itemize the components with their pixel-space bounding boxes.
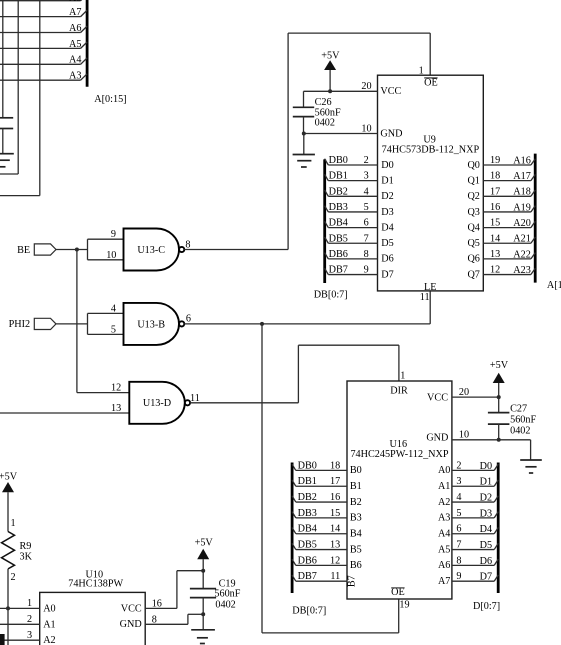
svg-text:20: 20 (361, 81, 371, 92)
svg-text:A2: A2 (438, 497, 450, 508)
svg-text:9: 9 (456, 571, 461, 582)
svg-text:DB6: DB6 (329, 249, 348, 260)
svg-text:A5: A5 (69, 39, 81, 50)
svg-text:D2: D2 (480, 492, 492, 503)
svg-text:12: 12 (111, 383, 121, 394)
svg-text:4: 4 (111, 303, 116, 314)
svg-text:A6: A6 (69, 23, 81, 34)
svg-text:560nF: 560nF (510, 415, 536, 426)
svg-text:17: 17 (330, 476, 340, 487)
svg-text:4: 4 (456, 492, 461, 503)
svg-text:A22: A22 (513, 249, 531, 260)
svg-text:18: 18 (490, 171, 500, 182)
svg-text:A0: A0 (438, 465, 450, 476)
svg-text:18: 18 (330, 460, 340, 471)
svg-text:A[16:23]: A[16:23] (547, 280, 561, 291)
svg-text:10: 10 (106, 250, 116, 261)
svg-text:6: 6 (456, 524, 461, 535)
svg-text:Q4: Q4 (467, 222, 479, 233)
svg-text:GND: GND (120, 619, 142, 630)
svg-text:D7: D7 (480, 572, 492, 583)
svg-text:14: 14 (330, 524, 340, 535)
svg-text:DIR: DIR (390, 385, 408, 396)
svg-text:10: 10 (459, 430, 469, 441)
svg-text:B3: B3 (350, 513, 362, 524)
svg-text:4: 4 (364, 186, 369, 197)
svg-text:19: 19 (399, 600, 409, 611)
svg-text:DB2: DB2 (329, 186, 348, 197)
svg-text:A0: A0 (43, 603, 55, 614)
svg-text:OE: OE (424, 77, 438, 88)
svg-text:0402: 0402 (510, 425, 530, 436)
svg-text:A3: A3 (69, 71, 81, 82)
svg-text:17: 17 (490, 186, 500, 197)
svg-text:D[0:7]: D[0:7] (473, 601, 500, 612)
svg-text:A21: A21 (513, 234, 531, 245)
svg-text:A23: A23 (513, 265, 531, 276)
svg-text:DB6: DB6 (298, 555, 317, 566)
svg-text:A4: A4 (69, 55, 81, 66)
svg-text:B6: B6 (350, 560, 362, 571)
svg-text:DB4: DB4 (329, 218, 348, 229)
svg-text:D4: D4 (480, 524, 492, 535)
svg-text:13: 13 (111, 403, 121, 414)
svg-text:A17: A17 (513, 171, 531, 182)
svg-text:2: 2 (364, 155, 369, 166)
svg-text:R9: R9 (20, 541, 32, 552)
svg-text:9: 9 (111, 229, 116, 240)
svg-text:19: 19 (490, 155, 500, 166)
svg-text:+5V: +5V (0, 472, 18, 483)
svg-text:12: 12 (490, 265, 500, 276)
svg-text:2: 2 (27, 614, 32, 625)
svg-text:DB1: DB1 (329, 171, 348, 182)
svg-text:U13-C: U13-C (137, 245, 165, 256)
svg-text:A1: A1 (438, 481, 450, 492)
svg-text:D3: D3 (480, 508, 492, 519)
svg-text:Q5: Q5 (467, 238, 479, 249)
svg-text:U13-D: U13-D (143, 398, 171, 409)
svg-text:OE: OE (391, 587, 405, 598)
svg-text:DB5: DB5 (298, 540, 317, 551)
svg-text:+5V: +5V (195, 537, 214, 548)
svg-text:A7: A7 (438, 576, 450, 587)
svg-text:D6: D6 (480, 556, 492, 567)
svg-text:74HC573DB-112_NXP: 74HC573DB-112_NXP (382, 145, 480, 156)
svg-text:A7: A7 (69, 7, 81, 18)
svg-text:C27: C27 (510, 404, 527, 415)
svg-text:16: 16 (152, 598, 162, 609)
svg-text:D2: D2 (381, 191, 393, 202)
svg-text:5: 5 (456, 508, 461, 519)
svg-text:3: 3 (27, 630, 32, 641)
svg-text:U13-B: U13-B (137, 319, 165, 330)
svg-text:DB2: DB2 (298, 492, 317, 503)
svg-text:12: 12 (330, 555, 340, 566)
svg-text:DB[0:7]: DB[0:7] (292, 606, 326, 617)
svg-text:A1: A1 (43, 619, 55, 630)
svg-text:8: 8 (152, 614, 157, 625)
svg-text:Q1: Q1 (467, 175, 479, 186)
svg-text:A18: A18 (513, 187, 531, 198)
svg-text:A5: A5 (438, 544, 450, 555)
svg-text:Q3: Q3 (467, 207, 479, 218)
svg-text:3: 3 (456, 476, 461, 487)
svg-text:2: 2 (11, 572, 16, 583)
svg-text:DB7: DB7 (329, 265, 348, 276)
svg-text:15: 15 (330, 508, 340, 519)
svg-text:D1: D1 (381, 175, 393, 186)
svg-text:D5: D5 (381, 238, 393, 249)
svg-text:15: 15 (490, 218, 500, 229)
svg-text:9: 9 (364, 265, 369, 276)
svg-text:3: 3 (364, 171, 369, 182)
svg-text:A20: A20 (513, 218, 531, 229)
svg-text:8: 8 (364, 249, 369, 260)
svg-text:7: 7 (456, 540, 461, 551)
svg-text:DB1: DB1 (298, 476, 317, 487)
svg-text:A19: A19 (513, 202, 531, 213)
svg-text:D3: D3 (381, 207, 393, 218)
svg-text:VCC: VCC (380, 86, 401, 97)
svg-text:0402: 0402 (215, 600, 235, 611)
svg-text:560nF: 560nF (214, 589, 240, 600)
svg-text:Q6: Q6 (467, 254, 479, 265)
svg-text:10: 10 (361, 123, 371, 134)
svg-text:20: 20 (459, 387, 469, 398)
svg-text:+5V: +5V (321, 51, 340, 62)
svg-text:0402: 0402 (315, 118, 335, 129)
svg-text:B7: B7 (347, 575, 358, 587)
svg-text:D0: D0 (480, 461, 492, 472)
svg-text:GND: GND (380, 128, 402, 139)
svg-text:A2: A2 (43, 635, 55, 645)
svg-text:GND: GND (426, 433, 448, 444)
svg-text:A6: A6 (438, 560, 450, 571)
svg-text:D6: D6 (381, 254, 393, 265)
svg-text:7: 7 (364, 233, 369, 244)
svg-text:B1: B1 (350, 481, 362, 492)
svg-text:Q0: Q0 (467, 160, 479, 171)
svg-text:13: 13 (490, 249, 500, 260)
svg-text:6: 6 (364, 218, 369, 229)
svg-text:B4: B4 (350, 529, 362, 540)
svg-text:5: 5 (364, 202, 369, 213)
svg-text:A8: A8 (69, 0, 81, 4)
svg-text:11: 11 (420, 292, 430, 303)
svg-text:Q2: Q2 (467, 191, 479, 202)
svg-text:16: 16 (490, 202, 500, 213)
svg-text:DB0: DB0 (329, 155, 348, 166)
svg-text:1: 1 (11, 518, 16, 529)
svg-text:BE: BE (17, 245, 30, 256)
svg-text:16: 16 (330, 492, 340, 503)
svg-text:DB4: DB4 (298, 524, 317, 535)
svg-text:D4: D4 (381, 222, 393, 233)
svg-text:D5: D5 (480, 540, 492, 551)
svg-text:Q7: Q7 (467, 269, 479, 280)
svg-text:A4: A4 (438, 529, 450, 540)
svg-text:D0: D0 (381, 160, 393, 171)
svg-text:DB7: DB7 (298, 571, 317, 582)
svg-text:DB[0:7]: DB[0:7] (314, 289, 348, 300)
svg-text:1: 1 (27, 598, 32, 609)
svg-text:B5: B5 (350, 544, 362, 555)
svg-text:1: 1 (400, 370, 405, 381)
svg-text:2: 2 (456, 460, 461, 471)
svg-text:A3: A3 (438, 513, 450, 524)
svg-text:VCC: VCC (427, 393, 448, 404)
svg-text:11: 11 (330, 571, 340, 582)
svg-text:DB0: DB0 (298, 460, 317, 471)
svg-text:DB5: DB5 (329, 233, 348, 244)
svg-text:A[0:15]: A[0:15] (94, 94, 126, 105)
svg-text:13: 13 (330, 540, 340, 551)
svg-text:VCC: VCC (121, 603, 142, 614)
svg-text:74HC138PW: 74HC138PW (68, 579, 123, 590)
svg-text:PHI2: PHI2 (9, 319, 31, 330)
svg-text:3K: 3K (20, 552, 33, 563)
svg-text:1: 1 (419, 66, 424, 77)
svg-text:B2: B2 (350, 497, 362, 508)
svg-text:DB3: DB3 (298, 508, 317, 519)
svg-text:A16: A16 (513, 155, 531, 166)
svg-text:DB3: DB3 (329, 202, 348, 213)
svg-text:6: 6 (186, 314, 191, 325)
svg-text:+5V: +5V (490, 360, 509, 371)
svg-text:D1: D1 (480, 477, 492, 488)
svg-text:5: 5 (111, 324, 116, 335)
svg-text:8: 8 (456, 555, 461, 566)
svg-text:14: 14 (490, 233, 500, 244)
svg-text:D7: D7 (381, 269, 393, 280)
svg-text:B0: B0 (350, 465, 362, 476)
svg-text:8: 8 (185, 239, 190, 250)
svg-text:74HC245PW-112_NXP: 74HC245PW-112_NXP (350, 449, 448, 460)
